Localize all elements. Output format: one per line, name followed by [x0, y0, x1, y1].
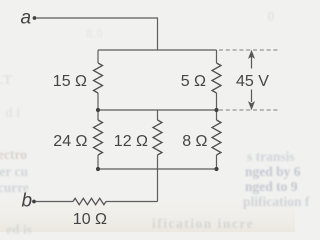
svg-text:5 Ω: 5 Ω [181, 73, 206, 90]
svg-text:12 Ω: 12 Ω [114, 133, 148, 150]
svg-text:24 Ω: 24 Ω [53, 133, 87, 150]
svg-text:b: b [22, 190, 33, 211]
svg-text:8 Ω: 8 Ω [182, 133, 207, 150]
svg-text:10 Ω: 10 Ω [73, 211, 107, 228]
svg-text:a: a [21, 7, 32, 28]
svg-text:15 Ω: 15 Ω [53, 73, 87, 90]
svg-text:45 V: 45 V [236, 73, 269, 90]
